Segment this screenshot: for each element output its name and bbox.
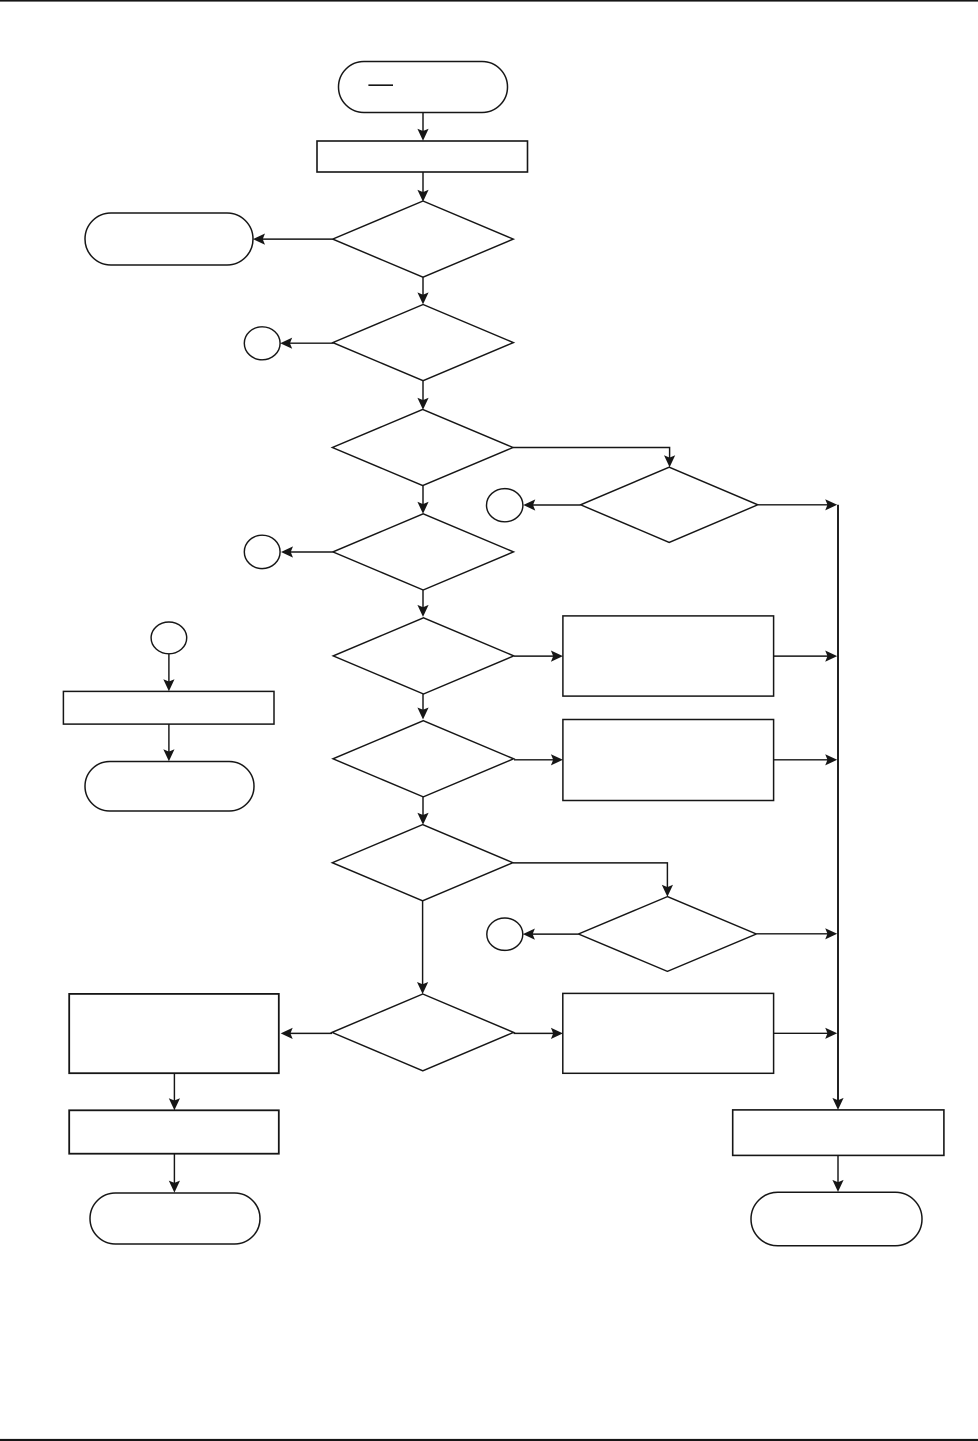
wire: D9 right to collector line xyxy=(756,928,837,939)
wire: D7 to decision D8 xyxy=(417,797,428,825)
terminal: end (bottom left) xyxy=(90,1193,260,1244)
terminal: start (top) xyxy=(339,62,508,113)
wire: R5 to end terminal (bottom left) xyxy=(169,1154,180,1193)
wire: D3 to decision D5 xyxy=(417,485,428,514)
process box R3 (left of D10) xyxy=(69,994,279,1073)
wire: R1 to collector line xyxy=(774,651,838,662)
process box R7 (left column) xyxy=(63,691,274,724)
decision diamond D7 xyxy=(333,721,514,797)
process box R5 (bottom left) xyxy=(69,1110,279,1153)
wire: D9 left to connector circle D xyxy=(523,929,579,940)
connector circle C xyxy=(244,535,280,568)
connector circle D xyxy=(487,918,523,950)
process box R4 (right of D10) xyxy=(563,993,774,1073)
decision diamond D8 xyxy=(332,825,513,901)
process box R2 (right of D7) xyxy=(563,720,774,801)
connector circle A xyxy=(244,327,280,360)
wire: R6 to end terminal (bottom right) xyxy=(832,1155,843,1192)
decision diamond D3 xyxy=(332,409,513,485)
bottom page rule xyxy=(0,1439,978,1441)
wire: D8 to decision D10 xyxy=(417,901,428,994)
wire: D10 left to process box R3 xyxy=(281,1028,332,1039)
wire: D5 to decision D6 xyxy=(417,590,428,617)
decision diamond D5 xyxy=(333,514,514,590)
wire: D1 to decision D2 xyxy=(417,277,428,304)
top page rule xyxy=(0,0,978,2)
connector circle B xyxy=(487,489,523,522)
wire: D3 right elbow to decision D4 xyxy=(513,448,675,468)
decision diamond D2 xyxy=(333,305,514,381)
terminal: end (left column) xyxy=(85,762,254,812)
decision diamond D9 xyxy=(579,897,757,972)
wire: D4 left to connector circle B xyxy=(523,499,581,510)
decision diamond D10 xyxy=(332,994,514,1071)
wire: D6 to decision D7 xyxy=(417,694,428,719)
process box R6 (bottom right) xyxy=(733,1110,944,1156)
wire: R7 to end terminal (left column) xyxy=(163,724,174,761)
wire: D6 right to process box R1 xyxy=(514,651,563,662)
wire: D8 right elbow to decision D9 xyxy=(513,863,673,897)
collector vertical wire (right side) xyxy=(832,505,843,1110)
decision diamond D4 xyxy=(581,467,758,542)
wire: process box to decision D1 xyxy=(417,172,428,202)
process box R1 (right of D6) xyxy=(563,616,774,696)
wire: start terminal to process box xyxy=(417,113,428,141)
wire: D10 right to process box R4 xyxy=(514,1028,563,1039)
decision diamond D6 xyxy=(333,618,514,694)
wire: D7 right to process box R2 xyxy=(514,754,563,765)
wire: D2 to decision D3 xyxy=(417,381,428,410)
connector circle E (left column) xyxy=(151,622,187,654)
wire: circle E to process box R7 xyxy=(163,654,174,691)
wire: R4 to collector line xyxy=(774,1028,838,1039)
wire: D4 right to collector line xyxy=(758,499,838,510)
wire: R3 to process box R5 xyxy=(169,1073,180,1110)
wire: D2 left to connector circle A xyxy=(280,338,333,349)
wire: D5 left to connector circle C xyxy=(281,546,334,557)
wire: R2 to collector line xyxy=(774,754,838,765)
terminal: end (bottom right) xyxy=(751,1192,922,1246)
wire: D1 left to end terminal xyxy=(253,234,333,245)
terminal: end (left of D1) xyxy=(85,213,253,265)
dash label inside start terminal xyxy=(368,84,393,86)
process box P1 (top wide rect) xyxy=(317,141,528,172)
decision diamond D1 xyxy=(333,201,514,277)
